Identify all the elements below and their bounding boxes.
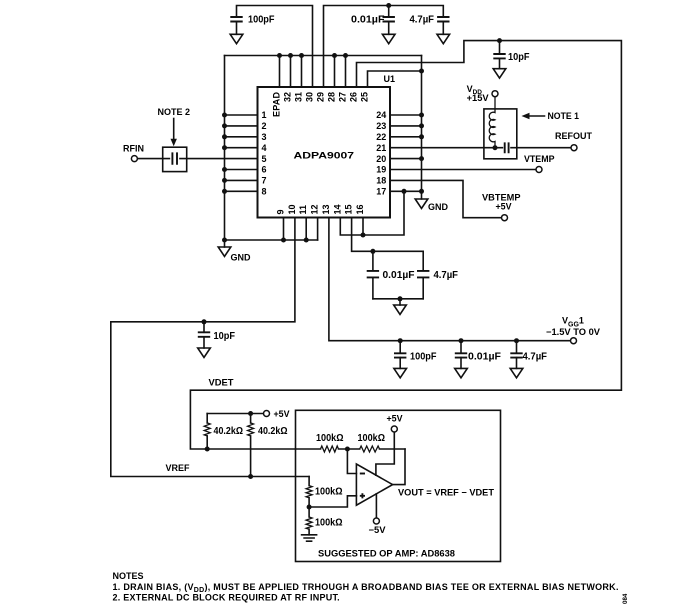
svg-text:28: 28	[327, 92, 337, 102]
svg-text:100kΩ: 100kΩ	[315, 486, 343, 497]
svg-text:16: 16	[355, 204, 365, 214]
wire pin10 VREF run	[111, 218, 309, 477]
capacitor C9 ground	[455, 358, 468, 378]
svg-text:4.7µF: 4.7µF	[410, 15, 435, 26]
svg-text:VREF: VREF	[166, 463, 190, 473]
node 10pF top right	[497, 38, 502, 43]
svg-text:+15V: +15V	[467, 93, 489, 103]
node +in divider	[307, 505, 312, 510]
svg-text:10pF: 10pF	[214, 331, 236, 342]
wire pins 14,16 tie to pin17	[340, 191, 404, 235]
svg-text:0.01µF: 0.01µF	[351, 15, 385, 26]
NOTE 2 arrow	[173, 119, 175, 140]
node pin9	[281, 238, 286, 243]
wire pin29 to top cap pair	[324, 6, 444, 88]
svg-text:100kΩ: 100kΩ	[316, 433, 344, 444]
svg-text:8: 8	[262, 187, 267, 197]
op-amp plus sign	[360, 493, 365, 498]
op-amp U2 triangle	[356, 464, 392, 505]
resistor R4 100k (feedback)	[347, 448, 405, 450]
resistor R6 100k (to ground)	[308, 507, 310, 535]
svg-text:RFIN: RFIN	[123, 144, 144, 154]
resistor R3 100k (VDET input)	[296, 448, 348, 450]
node pin24	[419, 113, 424, 118]
svg-text:GND: GND	[428, 202, 449, 212]
capacitor C4 plates	[493, 54, 505, 58]
bottom pin labels 9-16 (rotated)	[276, 204, 366, 214]
node pin7	[222, 178, 227, 183]
svg-text:18: 18	[376, 176, 386, 186]
resistor R5 100k (VREF to +in)	[308, 477, 310, 508]
node pin16	[361, 233, 366, 238]
capacitor C8 plates	[394, 353, 406, 357]
svg-text:6: 6	[262, 165, 267, 175]
svg-text:11: 11	[298, 205, 308, 215]
wire pin19 to VTEMP	[390, 169, 536, 171]
node VGG 0.01uF	[459, 338, 464, 343]
node pin22	[419, 134, 424, 139]
svg-text:7: 7	[262, 176, 267, 186]
terminal +5V (divider)	[264, 411, 270, 417]
node pin27	[343, 53, 348, 58]
svg-text:+5V: +5V	[274, 409, 290, 419]
node mid pair bottom	[398, 296, 403, 301]
svg-text:5: 5	[262, 154, 267, 164]
ground (right bus)	[415, 199, 428, 208]
node left bus bottom	[222, 238, 227, 243]
node R3/R4 junction	[345, 447, 350, 452]
svg-text:4.7µF: 4.7µF	[434, 270, 459, 281]
svg-text:21: 21	[376, 143, 386, 153]
wire -5V supply	[375, 494, 377, 518]
node EPAD	[277, 53, 282, 58]
DC block capacitor plates	[170, 152, 179, 166]
svg-text:084: 084	[622, 593, 629, 604]
right GND bus wire	[421, 56, 423, 200]
wire RFIN to pin5	[137, 158, 257, 160]
svg-text:100kΩ: 100kΩ	[315, 518, 343, 529]
capacitor C3 4.7uF plates	[437, 17, 449, 22]
node pin17 tie	[402, 189, 407, 194]
svg-text:9: 9	[276, 209, 286, 214]
pins 9,11,12 stubs (bottom)	[284, 218, 318, 241]
wire inverting input	[347, 449, 356, 474]
top GND rail wire	[225, 55, 422, 57]
svg-text:4: 4	[262, 143, 267, 153]
terminal +5V (op-amp)	[391, 426, 397, 432]
svg-text:VTEMP: VTEMP	[524, 154, 555, 164]
terminal REFOUT	[571, 145, 577, 151]
top pin labels EPAD,32-25 (rotated)	[272, 92, 370, 118]
terminal VBTEMP	[502, 215, 508, 221]
wire pin25 to right bus	[368, 71, 422, 87]
ground (left bus)	[218, 240, 231, 256]
svg-text:2. EXTERNAL DC BLOCK REQUIRED: 2. EXTERNAL DC BLOCK REQUIRED AT RF INPU…	[113, 593, 340, 603]
node pin25 tie	[419, 69, 424, 74]
svg-text:40.2kΩ: 40.2kΩ	[258, 426, 288, 437]
svg-text:NOTE 1: NOTE 1	[548, 111, 580, 121]
svg-text:VDET: VDET	[209, 377, 235, 387]
capacitor C2 ground	[382, 22, 395, 44]
svg-text:NOTE 2: NOTE 2	[158, 107, 191, 117]
node pin23	[419, 123, 424, 128]
resistor R1 40.2k top rail and +5V	[207, 413, 263, 415]
earth ground (R6)	[302, 535, 317, 541]
node 0.01uF top	[386, 3, 391, 8]
capacitor C10 ground	[510, 358, 523, 378]
capacitor C8 ground	[394, 358, 407, 378]
svg-text:+5V: +5V	[496, 202, 512, 212]
svg-text:40.2kΩ: 40.2kΩ	[214, 426, 244, 437]
node pin3	[222, 134, 227, 139]
wire pin30 to 100pF	[237, 6, 313, 88]
wire feedback loop to output	[393, 449, 405, 485]
svg-text:+5V: +5V	[387, 413, 403, 423]
svg-text:30: 30	[305, 92, 315, 102]
svg-text:25: 25	[360, 92, 370, 102]
svg-text:GND: GND	[231, 252, 252, 262]
wire noninverting input	[309, 496, 356, 507]
svg-text:10pF: 10pF	[508, 52, 530, 63]
svg-text:2: 2	[262, 121, 267, 131]
svg-text:14: 14	[332, 204, 342, 214]
capacitor C7 10pF lead	[203, 322, 205, 333]
svg-text:100pF: 100pF	[248, 15, 275, 26]
node pin32	[288, 53, 293, 58]
capacitor C2 0.01uF lead	[388, 6, 390, 18]
capacitor C1 lead + ground	[230, 22, 243, 44]
svg-text:0.01µF: 0.01µF	[383, 270, 415, 281]
pins 1-8 stubs (left side)	[225, 115, 258, 191]
svg-text:100pF: 100pF	[410, 351, 437, 362]
svg-text:REFOUT: REFOUT	[555, 131, 593, 141]
svg-text:3: 3	[262, 132, 267, 142]
svg-text:23: 23	[376, 121, 386, 131]
node pin6	[222, 167, 227, 172]
svg-text:0.01µF: 0.01µF	[468, 351, 501, 362]
svg-text:24: 24	[376, 110, 386, 120]
svg-text:22: 22	[376, 132, 386, 142]
node R1 bottom	[205, 447, 210, 452]
resistor R1 40.2k (left)	[206, 414, 208, 450]
svg-text:ADPA9007: ADPA9007	[294, 151, 355, 161]
svg-text:32: 32	[283, 92, 293, 102]
node pin11	[304, 238, 309, 243]
svg-text:1: 1	[262, 110, 267, 120]
node divider +5V	[248, 411, 253, 416]
capacitor C4 10pF lead	[499, 41, 501, 54]
svg-text:12: 12	[310, 204, 320, 214]
terminal RFIN	[131, 156, 137, 162]
svg-text:SUGGESTED OP AMP: AD8638: SUGGESTED OP AMP: AD8638	[318, 549, 455, 559]
terminal VGG1	[571, 338, 577, 344]
bias tee capacitor plates (white gap)	[503, 142, 510, 154]
svg-text:26: 26	[349, 92, 359, 102]
capacitor C9 0.01uF lead	[460, 341, 462, 353]
capacitor C5 0.01uF leads	[372, 251, 374, 298]
capacitor C8 100pF lead	[399, 341, 401, 353]
capacitor C6 lead	[422, 279, 424, 299]
node pin4	[222, 145, 227, 150]
op-amp outer box	[296, 410, 501, 561]
svg-text:−5V: −5V	[369, 525, 386, 535]
node pin2	[222, 123, 227, 128]
wire pin13 VGG1 rail	[329, 218, 570, 341]
svg-text:19: 19	[376, 165, 386, 175]
capacitor C10 4.7uF lead	[516, 341, 518, 353]
pins EPAD,32,31,28,27 stubs (top)	[280, 56, 346, 88]
svg-text:31: 31	[294, 92, 304, 102]
svg-text:4.7µF: 4.7µF	[523, 351, 548, 362]
wire +5V supply to op-amp	[376, 432, 394, 475]
DC block box	[163, 147, 187, 171]
wire pin15 to mid cap pair	[352, 218, 424, 271]
IC U1 ADPA9007 body	[258, 87, 391, 218]
capacitor C3 ground	[437, 22, 450, 44]
inductor L1	[489, 97, 495, 148]
svg-text:100kΩ: 100kΩ	[358, 433, 386, 444]
bias tee box (NOTE 1)	[484, 109, 517, 159]
node pin1	[222, 113, 227, 118]
node pin28	[332, 53, 337, 58]
capacitor C6 4.7uF plates	[417, 271, 429, 278]
node R2 bottom VREF	[248, 474, 253, 479]
resistor R2 40.2k (right)	[250, 414, 252, 477]
svg-text:VOUT = VREF − VDET: VOUT = VREF − VDET	[398, 488, 495, 498]
svg-text:17: 17	[376, 187, 386, 197]
node VGG 4.7uF	[514, 338, 519, 343]
op-amp minus sign	[360, 473, 365, 475]
left GND bus wire	[225, 56, 318, 241]
wire mid cap pair bottom rail	[373, 298, 423, 300]
node VGG 100pF	[398, 338, 403, 343]
capacitor C7 ground	[198, 337, 211, 358]
node 10pF lower left	[202, 319, 207, 324]
terminal VTEMP	[536, 167, 542, 173]
capacitor C9 plates	[455, 353, 467, 357]
node pin8	[222, 189, 227, 194]
svg-text:EPAD: EPAD	[272, 92, 282, 118]
capacitor C4 ground	[493, 58, 506, 78]
capacitor C7 plates	[198, 332, 210, 337]
node pin17	[419, 189, 424, 194]
node pin20	[419, 156, 424, 161]
node pin31	[299, 53, 304, 58]
svg-text:13: 13	[321, 204, 331, 214]
svg-text:29: 29	[316, 92, 326, 102]
terminal VDD	[492, 91, 498, 97]
node mid 0.01uF top	[370, 249, 375, 254]
svg-text:U1: U1	[384, 74, 396, 84]
svg-text:15: 15	[344, 204, 354, 214]
capacitor C1 100pF plates	[230, 17, 242, 22]
wire pin26 VDET loop	[190, 41, 621, 449]
wire pin21 to bias tee and REFOUT	[390, 147, 571, 149]
capacitor C5 plates	[367, 271, 379, 278]
svg-text:27: 27	[338, 92, 348, 102]
svg-text:10: 10	[287, 204, 297, 214]
NOTE 1 arrow	[529, 115, 545, 117]
terminal -5V	[373, 518, 379, 524]
capacitor C2 plates	[383, 17, 395, 22]
wire pin18 to VBTEMP	[390, 180, 502, 217]
svg-text:20: 20	[376, 154, 386, 164]
pins 17-24 stubs (right side)	[390, 115, 422, 191]
ground (mid cap pair)	[394, 299, 407, 315]
node bias tee junction	[493, 145, 498, 150]
svg-text:NOTES: NOTES	[113, 571, 144, 581]
capacitor C10 plates	[510, 353, 522, 357]
svg-text:−1.5V TO 0V: −1.5V TO 0V	[546, 327, 600, 337]
